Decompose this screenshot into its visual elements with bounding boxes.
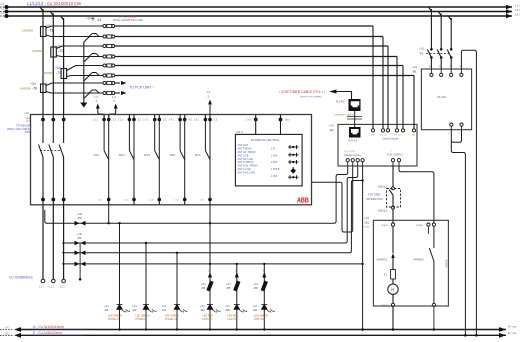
wire line C metering bbox=[311, 166, 352, 232]
busbar L2 bbox=[0, 9, 512, 13]
bottom terminal b5 bbox=[200, 196, 212, 205]
meter circuit P4 bbox=[209, 205, 211, 330]
wire phase A drop bbox=[40, 7, 43, 115]
LED circuit H2 bbox=[145, 242, 147, 330]
phase A feeder down bbox=[42, 205, 44, 279]
wire CT row1 bbox=[46, 26, 373, 28]
label current inputs bbox=[382, 137, 399, 141]
svg-text:ANT A A/L LIVE: ANT A A/L LIVE bbox=[238, 171, 256, 174]
phase C terminal bottom bbox=[62, 197, 66, 205]
LED H2 symbol bbox=[132, 304, 157, 321]
wire line D metering bbox=[62, 166, 358, 243]
label A1 bbox=[329, 124, 334, 133]
CU terminal C bbox=[60, 279, 65, 288]
svg-text:1-13: 1-13 bbox=[149, 200, 154, 202]
phase B pole bbox=[49, 125, 54, 197]
svg-text:+ -: + - bbox=[391, 151, 394, 153]
svg-text:1-2.1: 1-2.1 bbox=[118, 119, 124, 122]
Q1 lamp branch bbox=[377, 226, 395, 269]
fuse switch F1 pole2 bbox=[437, 48, 442, 69]
phase C terminal top bbox=[62, 115, 66, 126]
meter circuit P5 bbox=[236, 263, 238, 330]
ETH-1 port bbox=[349, 127, 361, 143]
phase C feeder down bbox=[63, 205, 65, 279]
svg-text:1-4: 1-4 bbox=[94, 95, 98, 99]
Q1 bottom terminal left bbox=[381, 303, 395, 307]
wire CT row8 bbox=[46, 90, 127, 95]
RJ-45 connector bbox=[336, 99, 361, 111]
svg-text:R3/1: R3/1 bbox=[144, 153, 150, 157]
VT drop L2 bbox=[438, 12, 441, 49]
aux relay box A1 bbox=[338, 124, 417, 166]
svg-text:5.2: 5.2 bbox=[214, 119, 218, 122]
relay K1 mid column bbox=[271, 148, 280, 178]
CT T6 bbox=[20, 82, 46, 93]
meter circuit P6 bbox=[263, 263, 265, 330]
svg-text:A: A bbox=[429, 65, 431, 68]
wire CT row5 bbox=[67, 66, 403, 71]
svg-text:4.2: 4.2 bbox=[189, 119, 193, 122]
svg-text:RJ-45: RJ-45 bbox=[336, 100, 344, 104]
svg-text:-T1: -T1 bbox=[48, 29, 53, 33]
aux supply wire to interlock bbox=[392, 166, 394, 187]
svg-text:ETH-1: ETH-1 bbox=[349, 139, 358, 143]
svg-text:1-4: 1-4 bbox=[112, 95, 116, 99]
bottom terminal b4 bbox=[174, 196, 186, 205]
wire terminal b2 drop bbox=[108, 205, 110, 225]
aux arrow 2 to relay bbox=[109, 95, 118, 117]
label F1 bbox=[419, 47, 424, 56]
CT T2 bbox=[32, 45, 63, 58]
LED circuit H3 bbox=[176, 252, 178, 330]
aux arrow 1 to relay bbox=[94, 95, 104, 117]
svg-text:-P6: -P6 bbox=[254, 286, 259, 290]
svg-text:R: R bbox=[391, 287, 394, 292]
wire CT row6 bbox=[67, 73, 414, 77]
svg-text:WITH SHORTING LINK: WITH SHORTING LINK bbox=[113, 18, 143, 22]
svg-text:1-11: 1-11 bbox=[98, 200, 103, 202]
svg-text:-H5: -H5 bbox=[225, 308, 230, 312]
CT terminal X1 row3 bbox=[103, 44, 115, 47]
meter P6 symbol bbox=[254, 270, 268, 292]
ground symbol bbox=[80, 101, 87, 108]
svg-text:+01: +01 bbox=[364, 216, 369, 220]
LED circuit H1 bbox=[118, 222, 120, 330]
aux contact 1 bbox=[94, 122, 109, 196]
aux arrow 3 bbox=[207, 90, 212, 115]
VT top terminals bbox=[429, 65, 463, 77]
junction dots on N bus bbox=[118, 328, 265, 330]
svg-text:1-5.1: 1-5.1 bbox=[194, 119, 200, 122]
svg-text:+00: +00 bbox=[30, 82, 36, 86]
CT terminal X1 row7 bbox=[103, 81, 115, 84]
customer cable callout bbox=[279, 90, 352, 100]
wire row5 to aux bbox=[402, 66, 404, 129]
svg-text:1400/5A: 1400/5A bbox=[22, 29, 33, 33]
svg-text:PHASE L3: PHASE L3 bbox=[165, 318, 177, 321]
bottom terminal b1 bbox=[98, 196, 110, 205]
svg-text:SPARE/2: SPARE/2 bbox=[413, 258, 424, 262]
wire CT row4 bbox=[56, 54, 397, 57]
svg-text:1 B.B: 1 B.B bbox=[271, 154, 277, 157]
label N bus bbox=[33, 325, 90, 329]
svg-text:+01-IL1: +01-IL1 bbox=[378, 185, 388, 189]
aux contact 2 bbox=[119, 122, 134, 196]
svg-text:1400/5A: 1400/5A bbox=[20, 87, 31, 91]
svg-text:-P5: -P5 bbox=[226, 286, 231, 290]
CU terminal B bbox=[50, 279, 56, 288]
CT terminal X1 row8 bbox=[103, 91, 115, 94]
label aux supply bbox=[387, 151, 403, 157]
LED H4 symbol bbox=[200, 304, 221, 321]
svg-text:SUPPLY BY OTHERS: SUPPLY BY OTHERS bbox=[300, 97, 322, 99]
voltage input branch to N rail bbox=[361, 166, 364, 331]
svg-text:INTERLOCK: INTERLOCK bbox=[366, 197, 383, 201]
svg-text:5.1 5.2: 5.1 5.2 bbox=[380, 135, 387, 137]
svg-text:2: 2 bbox=[114, 99, 116, 103]
svg-text:+00: +00 bbox=[55, 66, 61, 70]
svg-text:L2.1: L2.1 bbox=[50, 286, 55, 289]
CT terminal X1 row1 bbox=[103, 24, 115, 27]
svg-text:-B1: -B1 bbox=[412, 70, 417, 74]
busbar L3 bbox=[0, 14, 512, 18]
phase A pole bbox=[39, 125, 44, 197]
phase B feeder down bbox=[52, 205, 54, 279]
svg-text:1 B.B: 1 B.B bbox=[271, 175, 277, 178]
svg-text:PHASE L1: PHASE L1 bbox=[108, 318, 120, 321]
svg-text:-T6: -T6 bbox=[32, 87, 37, 91]
svg-text:1A: 1A bbox=[371, 134, 374, 137]
bottom terminal b2 bbox=[124, 196, 136, 205]
svg-text:-H1: -H1 bbox=[104, 308, 109, 312]
svg-text:L1 L2 L3 N: L1 L2 L3 N bbox=[344, 151, 355, 153]
relay K1 contact sym3 bbox=[288, 160, 299, 164]
svg-text:+01: +01 bbox=[419, 47, 424, 51]
bus label bbox=[27, 1, 82, 6]
svg-text:1.2: 1.2 bbox=[113, 119, 117, 122]
svg-text:/ E: / E bbox=[5, 332, 8, 336]
Q1 lamp bbox=[388, 284, 398, 303]
svg-text:L2 /: L2 / bbox=[515, 8, 520, 12]
label E bus bbox=[33, 331, 85, 335]
CT terminal X1 row5 bbox=[103, 64, 115, 67]
svg-text:E / xxx: E / xxx bbox=[508, 331, 517, 335]
phase B terminal bottom bbox=[51, 197, 55, 205]
svg-text:-T2: -T2 bbox=[58, 49, 63, 53]
svg-text:1-1.1: 1-1.1 bbox=[93, 119, 99, 122]
label voltage inputs bbox=[344, 151, 361, 157]
Q1 top terminal right pair bbox=[416, 223, 436, 234]
svg-text:Voltage Inputs: Voltage Inputs bbox=[344, 153, 361, 157]
gang dashed link bbox=[40, 150, 61, 152]
svg-text:1 B.B.B: 1 B.B.B bbox=[271, 168, 280, 171]
svg-text:-T3: -T3 bbox=[56, 71, 61, 75]
main switchgear box bbox=[31, 115, 312, 205]
Q1 switch branch bbox=[413, 226, 449, 303]
CT terminal X1 row4 bbox=[103, 55, 115, 58]
svg-text:1-12: 1-12 bbox=[124, 200, 129, 202]
busbar L1 bbox=[0, 5, 512, 9]
svg-text:1-15: 1-15 bbox=[200, 200, 205, 202]
aux contact 4 bbox=[170, 122, 185, 196]
label CT terminal bbox=[86, 15, 143, 23]
svg-text:ETHERNET CABLE: ETHERNET CABLE bbox=[334, 114, 354, 117]
svg-text:1 B.B: 1 B.B bbox=[271, 161, 277, 164]
svg-text:N - Cu 3x100x10mm: N - Cu 3x100x10mm bbox=[33, 325, 64, 329]
svg-text:L1/L2/L3 - Cu 3X100X10 mm: L1/L2/L3 - Cu 3X100X10 mm bbox=[27, 1, 82, 6]
svg-text:FOR TRIP: FOR TRIP bbox=[254, 318, 266, 321]
svg-text:+00: +00 bbox=[86, 17, 92, 21]
svg-text:L1 /: L1 / bbox=[515, 4, 520, 8]
svg-text:/ N: / N bbox=[5, 326, 8, 330]
CT terminal X1 row2 bbox=[103, 35, 115, 38]
label B1 bbox=[412, 65, 417, 74]
phase C pole bbox=[59, 125, 64, 197]
meter P1 bbox=[75, 232, 86, 245]
svg-text:1-14: 1-14 bbox=[174, 200, 179, 202]
wire line B metering bbox=[45, 166, 348, 223]
svg-text:1: 1 bbox=[96, 99, 98, 103]
label TO PCP UNIT bbox=[129, 86, 154, 90]
svg-text:FOR ON: FOR ON bbox=[203, 318, 213, 321]
Q1 fuse E1 bbox=[384, 270, 395, 284]
ABB logo bbox=[297, 196, 309, 205]
svg-text:-Q1: -Q1 bbox=[364, 221, 369, 225]
aux box bottom terminals voltage bbox=[346, 159, 364, 166]
svg-text:-P2: -P2 bbox=[77, 216, 82, 220]
svg-text:9a.x: 9a.x bbox=[285, 119, 290, 122]
VT aux feed wire bbox=[461, 50, 477, 336]
CU terminal A bbox=[39, 279, 45, 288]
wire CT row2 bbox=[46, 34, 383, 37]
earth bus E bbox=[0, 332, 506, 338]
svg-text:BKR: BKR bbox=[25, 130, 30, 134]
relay input terminal pair 1 bbox=[93, 115, 117, 123]
svg-text:PHASE L2: PHASE L2 bbox=[136, 318, 148, 321]
Q1 lamp to N bbox=[392, 307, 395, 331]
svg-text:FOR OFF: FOR OFF bbox=[228, 318, 239, 321]
breaker label left bbox=[7, 111, 32, 134]
phase B terminal top bbox=[51, 115, 55, 126]
wire row2 to aux bbox=[382, 37, 384, 129]
svg-text:E1: E1 bbox=[384, 274, 388, 277]
relay unit K1 box bbox=[235, 130, 302, 186]
relay K1 contact sym1 bbox=[288, 145, 299, 149]
svg-text:R2/1: R2/1 bbox=[119, 153, 125, 157]
wire interlock to Q1 bbox=[392, 209, 394, 223]
svg-text:N / xxx: N / xxx bbox=[508, 325, 517, 329]
bottom terminal b3 bbox=[149, 196, 161, 205]
svg-text:R4/1: R4/1 bbox=[170, 153, 176, 157]
svg-text:/ L1: / L1 bbox=[0, 2, 5, 6]
wire row3 to aux bbox=[387, 46, 389, 129]
fuse switch F1 pole3 bbox=[447, 48, 452, 69]
relay input terminal pair 5 bbox=[194, 115, 218, 123]
svg-text:SPARE/1: SPARE/1 bbox=[377, 258, 388, 262]
svg-text:E - Cu 2x40x10mm: E - Cu 2x40x10mm bbox=[33, 331, 62, 335]
wire line F metering bbox=[62, 263, 364, 265]
wire phase B drop bbox=[50, 12, 53, 115]
svg-text:-P1: -P1 bbox=[77, 236, 82, 240]
svg-text:-H2: -H2 bbox=[132, 308, 137, 312]
earth tap row2 bbox=[84, 37, 90, 43]
svg-text:ABB: ABB bbox=[297, 196, 309, 205]
svg-text:L3 /: L3 / bbox=[515, 13, 520, 17]
svg-text:SPARE: SPARE bbox=[381, 224, 389, 227]
svg-text:1-4: 1-4 bbox=[207, 90, 211, 94]
svg-text:Current Inputs: Current Inputs bbox=[382, 137, 399, 141]
svg-text:-P4: -P4 bbox=[201, 286, 206, 290]
svg-text:CU TERMINALS: CU TERMINALS bbox=[9, 276, 33, 280]
VT secondary wires bbox=[451, 130, 466, 337]
svg-text:1400/5A: 1400/5A bbox=[42, 71, 53, 75]
svg-text:VA 100: VA 100 bbox=[437, 95, 446, 99]
aux box terminal labels bbox=[371, 134, 415, 137]
F1 gang dash bbox=[426, 53, 449, 55]
LED H5 symbol bbox=[225, 304, 247, 321]
svg-text:-A1: -A1 bbox=[329, 128, 334, 132]
Q1 top terminal left bbox=[381, 223, 395, 227]
VT bottom terminals bbox=[448, 123, 463, 135]
neutral bus N bbox=[0, 326, 506, 332]
relay input terminal pair 2 bbox=[118, 115, 142, 123]
VT drop L3 bbox=[448, 16, 451, 48]
svg-text:L1.1: L1.1 bbox=[39, 286, 44, 289]
label CU terminals bbox=[9, 276, 33, 280]
svg-text:TO PCP UNIT /: TO PCP UNIT / bbox=[129, 86, 154, 90]
svg-text:SPARE: SPARE bbox=[446, 259, 449, 267]
svg-text:1 B: 1 B bbox=[271, 148, 275, 151]
svg-text:+01: +01 bbox=[329, 124, 334, 128]
phase A terminal top bbox=[41, 115, 45, 126]
relay K1 text rows bbox=[238, 144, 259, 174]
aux contact 5 bbox=[195, 122, 210, 196]
CT T3 bbox=[42, 66, 67, 79]
future interlock bbox=[366, 185, 401, 213]
LED H6 symbol bbox=[253, 304, 275, 321]
wire phase C drop bbox=[61, 16, 64, 115]
VT box B1 bbox=[421, 69, 471, 130]
earth tap row4 bbox=[84, 57, 90, 63]
label Q1 bbox=[364, 216, 370, 229]
meter P2 bbox=[75, 212, 86, 226]
meter contact row E bbox=[75, 251, 86, 256]
svg-text:1-4.1: 1-4.1 bbox=[169, 119, 175, 122]
bus right labels bbox=[508, 325, 517, 336]
svg-text:-H6: -H6 bbox=[253, 308, 258, 312]
svg-text:MX1: MX1 bbox=[195, 153, 201, 157]
relay input terminal pair 4 bbox=[169, 115, 193, 123]
CT terminal X1 row6 bbox=[103, 74, 115, 77]
CT T1 bbox=[22, 24, 53, 37]
relay K1 contact sym5 bbox=[288, 175, 299, 179]
svg-text:3.2: 3.2 bbox=[163, 119, 167, 122]
svg-text:7.1 7.2: 7.1 7.2 bbox=[394, 135, 401, 137]
svg-text:SPARE: SPARE bbox=[381, 304, 389, 307]
svg-text:1400/5A: 1400/5A bbox=[32, 49, 43, 53]
meter rail stub bbox=[79, 243, 82, 281]
svg-text:2: 2 bbox=[208, 95, 210, 99]
aux contact 3 bbox=[144, 122, 159, 196]
svg-text:SPARE: SPARE bbox=[416, 224, 424, 227]
phase A terminal bottom bbox=[41, 197, 45, 205]
svg-text:+01-IL1: +01-IL1 bbox=[378, 209, 388, 213]
relay terminal K1 right bbox=[279, 115, 291, 135]
svg-text:/ L3: / L3 bbox=[0, 11, 5, 15]
svg-text:9A: 9A bbox=[412, 134, 415, 137]
VT drop L1 bbox=[428, 7, 431, 48]
meter contact row F bbox=[75, 262, 86, 267]
svg-text:n: n bbox=[459, 133, 461, 135]
earth link vertical bbox=[83, 42, 85, 101]
svg-text:R1/1: R1/1 bbox=[94, 153, 100, 157]
aux box bottom terminals supply bbox=[391, 159, 400, 166]
svg-text:-F1: -F1 bbox=[419, 52, 424, 56]
wire CT row7 bbox=[46, 81, 127, 86]
aux supply wire 2 to Q1 bbox=[399, 166, 434, 223]
bus end labels right bbox=[515, 4, 520, 17]
wire CT row3 bbox=[56, 46, 388, 49]
relay K1 contact sym2 bbox=[288, 153, 299, 157]
svg-text:-H4: -H4 bbox=[200, 308, 205, 312]
svg-text:1-9.x: 1-9.x bbox=[246, 119, 252, 122]
Q1 box bbox=[373, 220, 448, 306]
wire row6 to aux bbox=[413, 76, 415, 129]
svg-text:+01: +01 bbox=[412, 65, 417, 69]
svg-text:/ L2: / L2 bbox=[0, 7, 5, 11]
wire row1 to aux bbox=[372, 26, 374, 129]
relay K1 title bbox=[251, 138, 280, 142]
meter P4 symbol bbox=[201, 270, 214, 292]
svg-text:2.2: 2.2 bbox=[138, 119, 142, 122]
svg-text:/ CUSTOMER CABLE ETH-1 /: / CUSTOMER CABLE ETH-1 / bbox=[279, 90, 325, 94]
svg-text:230V: 230V bbox=[364, 227, 370, 229]
fuse switch F1 pole1 bbox=[427, 48, 432, 69]
earth tap row8 bbox=[84, 93, 90, 99]
LED H1 symbol bbox=[104, 304, 130, 321]
earth tap row6 bbox=[84, 76, 90, 82]
svg-text:+01.1: +01.1 bbox=[236, 130, 244, 134]
wire line E metering bbox=[62, 181, 363, 253]
svg-text:L3.1: L3.1 bbox=[60, 286, 65, 289]
svg-text:a: a bbox=[448, 133, 450, 135]
svg-text:1-3.1: 1-3.1 bbox=[143, 119, 149, 122]
svg-text:-H3: -H3 bbox=[162, 308, 167, 312]
ethernet cable hatch bbox=[334, 111, 362, 127]
relay input terminal pair 3 bbox=[143, 115, 167, 123]
wire row4 to aux bbox=[396, 57, 398, 129]
svg-text:-X1: -X1 bbox=[97, 18, 102, 22]
aux box top terminals row inputs bbox=[371, 124, 415, 132]
bus end labels left bbox=[0, 2, 5, 15]
LED H3 symbol bbox=[162, 304, 188, 321]
svg-text:AUX SUPPLY: AUX SUPPLY bbox=[387, 153, 403, 157]
svg-text:EXTERNAL NEUTRAL: EXTERNAL NEUTRAL bbox=[251, 138, 280, 142]
meter P5 symbol bbox=[226, 270, 240, 292]
relay terminal K1 left bbox=[246, 115, 258, 135]
svg-text:+01: +01 bbox=[24, 111, 29, 115]
relay K1 contact sym4 bbox=[290, 167, 296, 174]
Q1 bottom terminal right bbox=[432, 303, 435, 331]
